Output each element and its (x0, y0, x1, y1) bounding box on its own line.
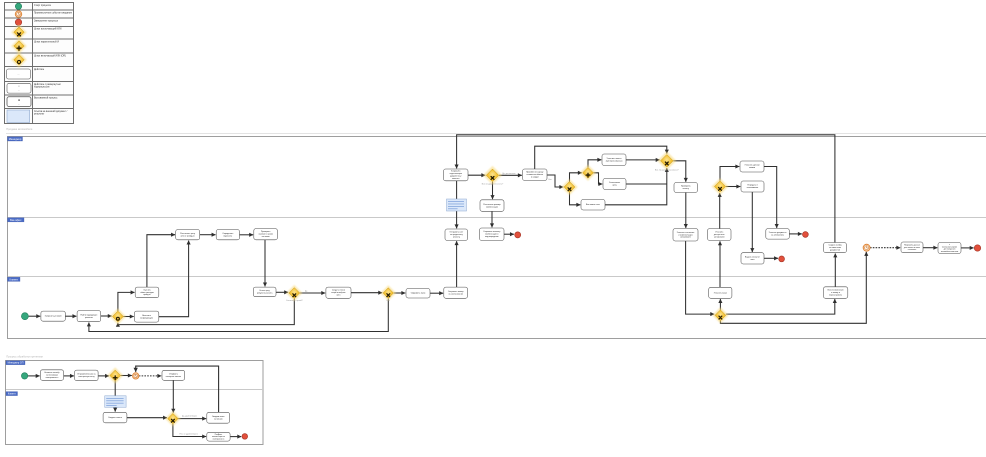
wire w46 AH-to-end (504, 233, 514, 235)
wire w8 P-to-Q (200, 234, 216, 236)
svg-text:Уточнить заказ: Уточнить заказ (714, 292, 727, 294)
wire w21 AL-to-AE (686, 241, 715, 314)
svg-text:Да, достаточно: Да, достаточно (502, 173, 515, 175)
main pool frame (6, 134, 986, 339)
wire w20 AE-to-AD (719, 299, 721, 310)
svg-text:о выплате: о выплате (908, 249, 917, 251)
legend call activity box (7, 97, 31, 107)
wire w32 E-to-G (594, 173, 603, 184)
legend row 4 text (34, 28, 62, 31)
legend action box (7, 69, 31, 79)
svg-text:клиента: клиента (452, 178, 460, 180)
svg-text:Запросить условия: Запросить условия (45, 316, 62, 318)
wire w22 AE-to-AF (726, 299, 835, 314)
wire w28 C-to-D (547, 175, 563, 187)
lane label pool2 lane1 (6, 361, 25, 365)
task B2 Зарегистрировать (75, 370, 99, 381)
wire b54 B1-to-B2 (64, 375, 74, 377)
wire b59 BG1-to-B4 (114, 381, 116, 412)
svg-text:перенаправить: перенаправить (829, 294, 842, 296)
wire w51 N-to-O (923, 247, 937, 249)
wire w34 G-to-I-via (626, 183, 667, 185)
timer event T3 (133, 373, 139, 379)
svg-text:автомобиля клиентом: автомобиля клиентом (941, 251, 959, 253)
task AI Уточнить доступность (708, 229, 732, 241)
svg-text:на письмо: на письмо (214, 418, 223, 420)
wire w18 AA-loop-to-T (89, 298, 388, 331)
svg-text:Действие: Действие (34, 68, 45, 71)
comment CA (447, 199, 467, 211)
comment CB (105, 396, 126, 408)
task O Согласовать передачу (938, 243, 961, 254)
gateway legend-or (O) (11, 52, 27, 68)
task M Передать в пользование (741, 181, 764, 192)
gateway D (X) (561, 179, 577, 195)
svg-text:⊞: ⊞ (18, 99, 20, 102)
svg-text:повторное письмо: повторное письмо (166, 376, 181, 378)
task W Выяснить конфигурацию (134, 311, 158, 322)
wire w19 AD-to-AI (719, 241, 721, 287)
svg-text:подтверждение: подтверждение (485, 236, 499, 238)
wire w49 A-to-AG (456, 181, 458, 229)
svg-text:Ожидать ответа: Ожидать ответа (108, 417, 123, 419)
task AJ Уточнить документы (766, 229, 790, 240)
legend row 2 text (34, 13, 73, 15)
wire b61 BG2-to-B5 (178, 418, 206, 420)
legend comment box (7, 110, 30, 123)
task AD Уточнить заказ (709, 287, 732, 298)
gateway Y (X) (286, 285, 302, 301)
svg-text:Ссылка на внешний документ /: Ссылка на внешний документ / (34, 110, 68, 113)
legend row 7 text (34, 68, 45, 71)
wire w35 H-to-I-bottom (605, 168, 667, 205)
svg-text:Выставить счет: Выставить счет (586, 204, 600, 206)
start event S1 (21, 313, 28, 320)
task R Проверить наличие (254, 229, 278, 240)
svg-text:Нет: Нет (549, 179, 552, 181)
svg-text:Да, удовлетворен: Да, удовлетворен (182, 416, 197, 418)
svg-text:неисправность: неисправность (213, 438, 225, 440)
wire w40 K-to-M (726, 186, 741, 188)
gateway AA (X) (381, 285, 397, 301)
gateway legend-xor (X) (11, 24, 27, 40)
task S Запросить условия (41, 311, 65, 321)
bottom pool frame (6, 361, 264, 445)
task B5 Завершить обращение (207, 412, 230, 423)
svg-text:автомобиля: автомобиля (714, 236, 725, 238)
svg-text:поставки: поставки (262, 236, 270, 238)
task B6 Получить компенсацию (207, 432, 230, 441)
task AC Отправить заявку (444, 287, 468, 298)
wire w47 B-to-BB (492, 182, 494, 199)
svg-text:Шлюз исключающий ИЛИ: Шлюз исключающий ИЛИ (34, 28, 62, 31)
gateway E (+) (580, 165, 596, 181)
task Q Определить скидки (216, 230, 239, 240)
task AF Внести изменения (823, 287, 847, 299)
wire b60 B4-to-BG2 (127, 417, 167, 419)
task AK Создать заявку (824, 243, 847, 253)
svg-text:Шлюз параллельный И: Шлюз параллельный И (34, 41, 59, 44)
svg-text:Шлюз включающий ИЛИ (OR): Шлюз включающий ИЛИ (OR) (34, 55, 66, 58)
svg-text:результат: результат (34, 114, 45, 116)
task P Рассчитать цену (176, 230, 200, 240)
wire w38 J-to-AL (685, 193, 687, 228)
svg-text:документов: документов (830, 249, 840, 251)
svg-text:Клиент: Клиент (8, 393, 17, 396)
wire w15 AB-to-AC (430, 292, 443, 294)
task N Направить данные (901, 242, 923, 253)
wire w17 Y-loop-to-U (118, 299, 294, 325)
svg-text:цену: цену (612, 185, 616, 187)
task B3 Повторное письмо (162, 370, 185, 380)
wire w33 F-to-I (626, 159, 660, 161)
wire b62 BG2-to-B6 (173, 424, 206, 437)
legend row 3 text (34, 21, 59, 23)
svg-text:Продажа автомобиля: Продажа автомобиля (6, 127, 33, 131)
svg-text:Бэк-офис: Бэк-офис (10, 218, 22, 222)
task C Произвести оценку (523, 169, 548, 181)
wire b53 start-to-B1 (28, 375, 40, 377)
svg-text:Менеджер: Менеджер (9, 137, 22, 141)
legend row 8 text (34, 83, 61, 89)
timer event legend-timer (15, 11, 21, 17)
task H Выставить счет (581, 200, 605, 211)
legend row 10 text (34, 110, 68, 116)
svg-text:Промежуточное событие-ожидание: Промежуточное событие-ожидание (34, 13, 73, 15)
wire w2 S-to-T (65, 315, 76, 317)
lane label lane3 (8, 277, 21, 281)
wire w39 AI-to-K (719, 193, 721, 229)
wire w50 timer-to-N dashed (870, 247, 900, 249)
wire w23 AE-to-timer (720, 252, 866, 323)
wire w6 V-to-P (147, 235, 175, 287)
end event EM (779, 256, 785, 262)
svg-text:Менеджер ОП: Менеджер ОП (8, 362, 24, 365)
end event EO (974, 245, 980, 251)
wire w13 Z-to-AA (351, 292, 382, 294)
wire w5 U-to-W (123, 316, 133, 318)
wire w43 M-to-AM (751, 192, 753, 252)
lane label lane1 (8, 137, 23, 141)
legend row 6 text (34, 55, 66, 58)
wire w16 AC-to-AG (456, 241, 458, 287)
task G Согласовать цену (603, 179, 626, 190)
svg-text:пользование: пользование (747, 187, 758, 189)
end event legend-end (15, 19, 21, 25)
svg-text:Процесс обработки претензии: Процесс обработки претензии (6, 355, 43, 359)
wire w29 D-to-E (570, 173, 582, 182)
task AM Выдать ключи (741, 253, 764, 264)
svg-text:трейд-ин: трейд-ин (143, 293, 151, 296)
task Z Создать список (326, 287, 351, 298)
lane label lane2 (8, 218, 25, 222)
wire b56 BG1-to-T3 (121, 375, 132, 377)
wire w10 R-to-X2 (264, 240, 266, 287)
svg-text:заявки: заявки (749, 167, 755, 169)
svg-text:Нет, не удовлетворен: Нет, не удовлетворен (180, 434, 198, 436)
svg-text:Завершение процесса: Завершение процесса (34, 21, 59, 23)
wire w25 AK-to-A long loop (457, 135, 835, 243)
task AL Уточнить состояние (673, 229, 698, 241)
end event EH (515, 232, 521, 238)
legend subprocess box (7, 83, 31, 93)
wire b58 B3-to-BG2 (172, 380, 174, 412)
svg-text:Старт процесса: Старт процесса (34, 5, 52, 7)
svg-text:на автомобиль: на автомобиль (771, 234, 784, 236)
wire b64 B6-to-end (230, 436, 241, 438)
start event legend-start (15, 3, 21, 9)
wire w3 T-to-U (101, 315, 112, 317)
end event E6 (242, 434, 248, 440)
gateway legend-and (+) (11, 38, 27, 54)
wire w7 W-to-P-bottom (159, 241, 189, 317)
svg-text:оплату: оплату (683, 188, 689, 190)
wire b55 B2-to-BG1 (98, 375, 109, 377)
task B4 Ожидать ответа (103, 412, 127, 423)
task F Уточнить шаги (602, 154, 626, 166)
gateway AE (X) (712, 307, 728, 323)
svg-text:Да: Да (305, 291, 307, 293)
wire w44 AM-to-end (764, 257, 778, 259)
task AG Отправить счет (445, 229, 468, 240)
task V Оценить обмен (135, 287, 159, 298)
wire w42 L-to-AJ (764, 167, 777, 228)
task J Проверить оплату (674, 183, 698, 193)
svg-text:Оформить заказ: Оформить заказ (411, 292, 426, 295)
legend table frame (5, 3, 74, 124)
wire b63 B5-loop-to-timer (136, 366, 219, 412)
gateway K (X) (712, 178, 729, 195)
wire w37 I-to-J (673, 161, 686, 182)
wire w4 U-to-V (118, 292, 135, 311)
svg-text:на согласование: на согласование (448, 293, 463, 295)
end event EJ (803, 232, 809, 238)
wire w27 B-to-C (499, 174, 522, 176)
wire w1 start-to-S (29, 315, 41, 317)
wire w11 X2-to-Y (276, 291, 288, 293)
svg-text:электронную почту: электронную почту (78, 376, 94, 378)
timer event T2 (863, 244, 870, 251)
task A Запросить документы (444, 169, 469, 181)
wire w30 D-to-H (570, 193, 581, 205)
task BB Рассчитать компенсацию (480, 200, 504, 212)
svg-text:и скидки: и скидки (531, 177, 539, 179)
wire w14 AA-to-AB (394, 292, 406, 294)
wire w12 Y-to-Z (300, 292, 325, 294)
wire w26 A-to-B (468, 174, 485, 176)
svg-text:Вызываемый процесс: Вызываемый процесс (34, 96, 58, 99)
wire w24 AF-to-AK (834, 254, 836, 287)
svg-text:неисправность: неисправность (46, 377, 59, 379)
gateway BG1 (+) (107, 367, 123, 383)
wire w48 BB-to-AH (491, 211, 493, 227)
svg-text:компенсации: компенсации (486, 206, 498, 208)
start event S2 (21, 373, 27, 379)
svg-text:конфигурацию: конфигурацию (140, 316, 153, 319)
gateway B (X) (483, 166, 502, 185)
task B1 Получить претензию (40, 370, 63, 381)
svg-text:заинтересованных: заинтересованных (606, 160, 623, 162)
svg-text:подпроцессом: подпроцессом (34, 87, 50, 89)
svg-text:Клиент: Клиент (9, 277, 18, 281)
task AB Оформить заказ (406, 289, 430, 299)
wire w31 E-to-F (588, 160, 601, 168)
task L Уточнить детали (740, 161, 764, 172)
legend row 1 text (34, 5, 52, 7)
wire w36 C-top bypass to I (535, 146, 667, 169)
svg-text:результат расчета: результат расчета (257, 293, 273, 295)
gateway BG2 (X) (165, 411, 181, 427)
legend row 9 text (34, 96, 58, 99)
task X2 Узнать цену (253, 287, 276, 297)
gateway I (X) (657, 151, 676, 170)
wire w45 AJ-to-end (789, 233, 802, 235)
svg-text:автомобиля: автомобиля (680, 237, 691, 239)
legend row 5 text (34, 41, 59, 44)
svg-text:авто: авто (751, 259, 755, 261)
task AH Отправить компенсацию (480, 228, 505, 240)
svg-text:клиенту: клиенту (453, 237, 460, 239)
svg-text:Действие с развернутым: Действие с развернутым (34, 83, 61, 86)
wire w52 O-to-end (961, 247, 974, 249)
task T Найти подходящее авто (77, 311, 101, 322)
wire w9 Q-to-R (240, 234, 254, 236)
svg-text:авто: авто (337, 295, 341, 297)
lane label pool2 lane2 (6, 392, 18, 396)
wire w41 K-to-L (720, 167, 739, 181)
gateway U (O) (110, 308, 126, 324)
svg-text:варианты: варианты (224, 235, 233, 237)
svg-text:авто и трейд-ин: авто и трейд-ин (181, 234, 195, 237)
svg-text:решение: решение (85, 317, 93, 319)
wire b57 T3-to-B3 dashed (139, 375, 162, 377)
